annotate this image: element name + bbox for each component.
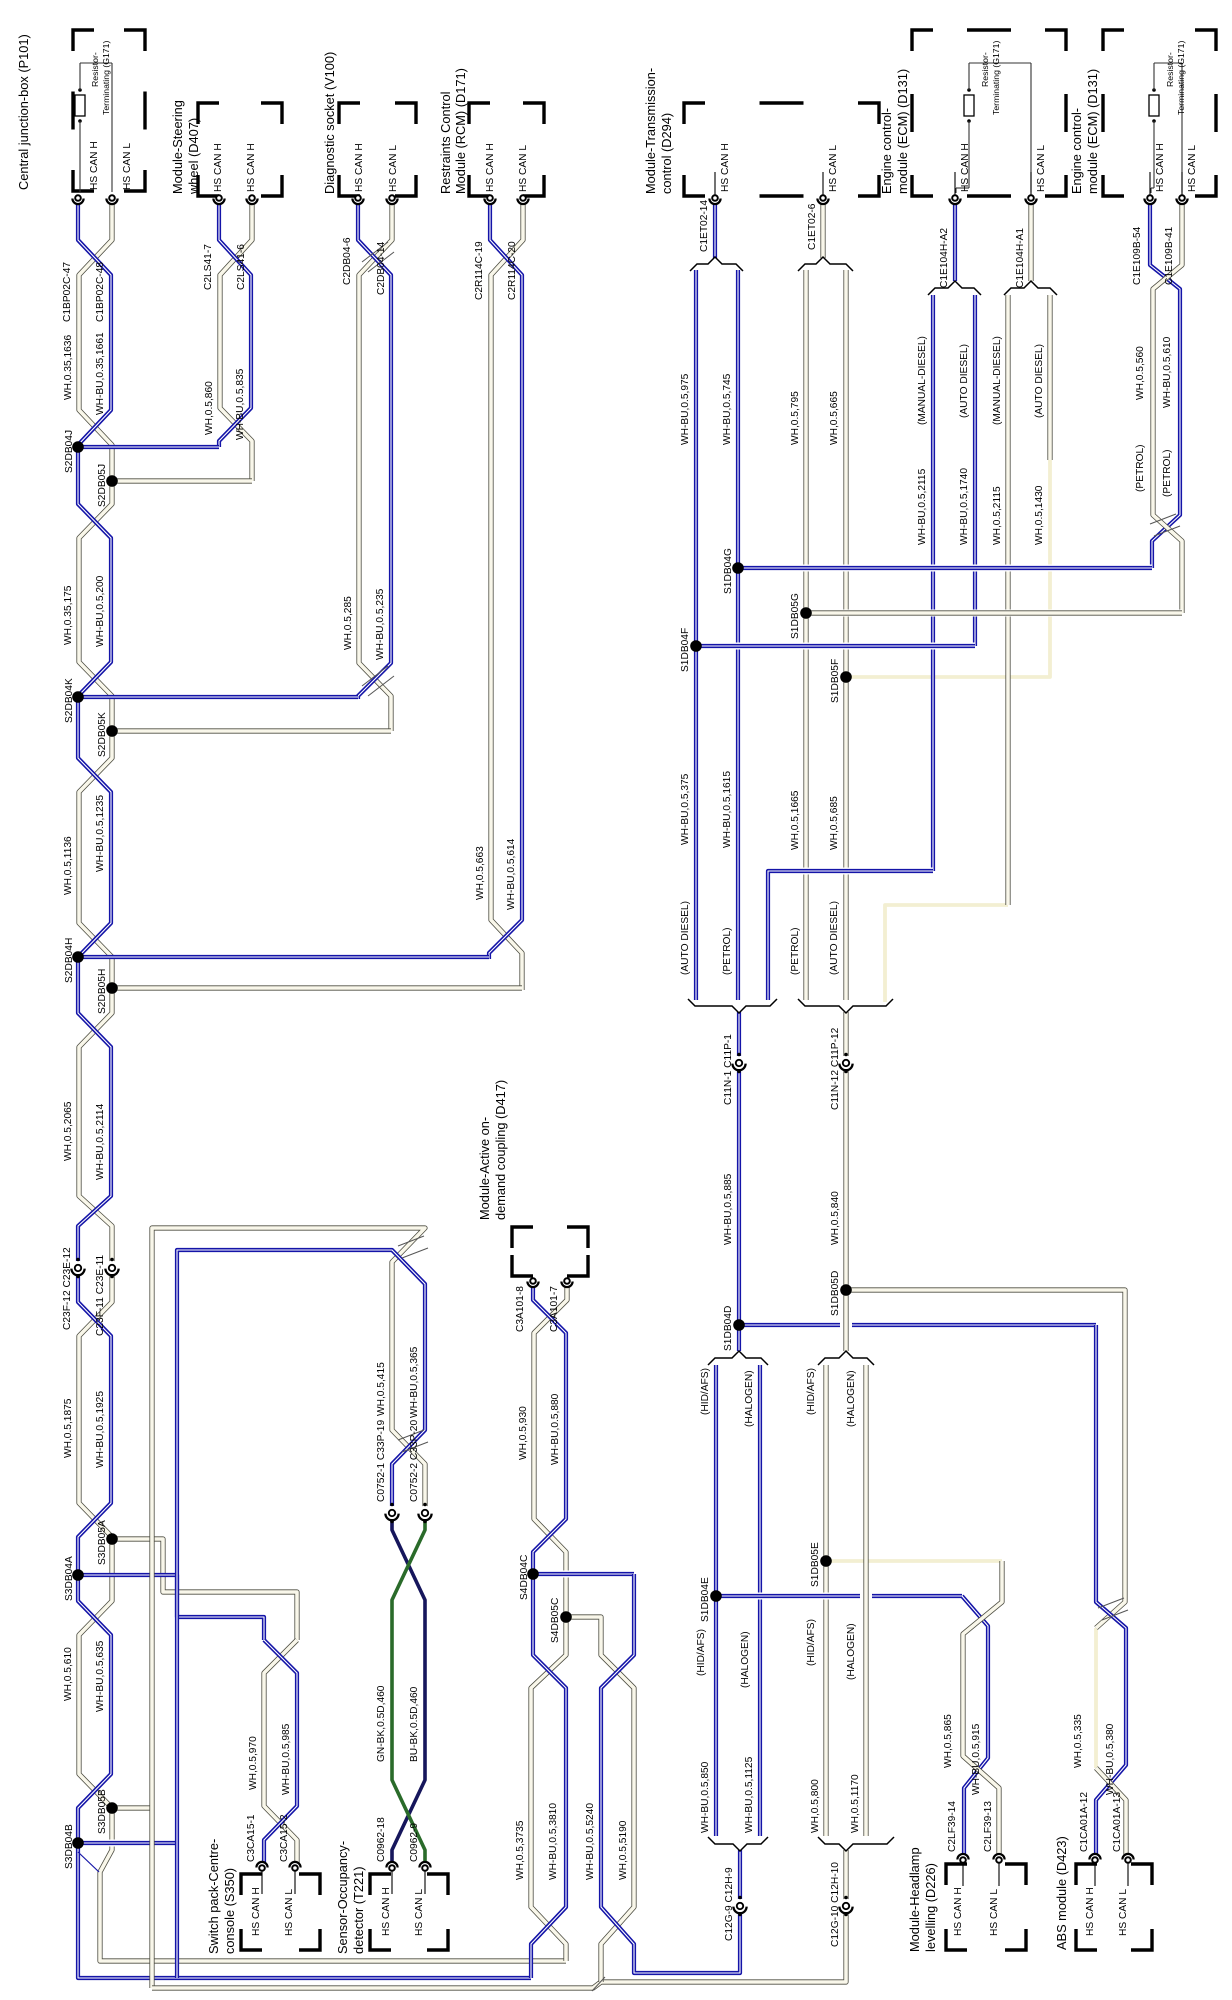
svg-text:Module (RCM) (D171): Module (RCM) (D171) (453, 68, 468, 194)
svg-text:WH-BU,0.5,5240: WH-BU,0.5,5240 (585, 1803, 596, 1880)
svg-text:(AUTO DIESEL): (AUTO DIESEL) (829, 901, 840, 975)
svg-text:C23F-12 C23E-12: C23F-12 C23E-12 (62, 1247, 73, 1330)
svg-text:WH-BU,0.5,2115: WH-BU,0.5,2115 (917, 468, 928, 545)
svg-text:HS CAN H: HS CAN H (213, 143, 224, 192)
svg-text:WH,0.5,1430: WH,0.5,1430 (1034, 485, 1045, 545)
svg-text:HS CAN L: HS CAN L (1036, 145, 1047, 192)
svg-text:C3A101-8: C3A101-8 (515, 1286, 526, 1332)
svg-text:S2DB05H: S2DB05H (97, 969, 108, 1014)
svg-text:WH,0.35,1636: WH,0.35,1636 (63, 335, 74, 400)
svg-text:C12G-10 C12H-10: C12G-10 C12H-10 (830, 1862, 841, 1947)
svg-text:WH,0.5,1136: WH,0.5,1136 (63, 836, 74, 895)
svg-text:WH,0.5,865: WH,0.5,865 (943, 1714, 954, 1768)
svg-text:C1E109B-54: C1E109B-54 (1132, 226, 1143, 285)
svg-text:C2LS41-7: C2LS41-7 (203, 244, 214, 290)
svg-text:WH,0.5,560: WH,0.5,560 (1135, 346, 1146, 400)
svg-text:WH-BU,0.5,1740: WH-BU,0.5,1740 (959, 468, 970, 545)
svg-text:S2DB05J: S2DB05J (97, 464, 108, 507)
svg-text:C1CA01A-13: C1CA01A-13 (1112, 1792, 1123, 1852)
svg-text:WH-BU,0.5,1615: WH-BU,0.5,1615 (722, 771, 733, 848)
svg-text:S4DB04C: S4DB04C (519, 1555, 530, 1600)
svg-text:C3CA15-2: C3CA15-2 (279, 1814, 290, 1862)
svg-text:S3DB05B: S3DB05B (97, 1789, 108, 1834)
svg-text:C0752-2 C33P-20: C0752-2 C33P-20 (409, 1420, 420, 1502)
svg-text:C12G-9 C12H-9: C12G-9 C12H-9 (724, 1867, 735, 1941)
svg-text:WH-BU,0.5,745: WH-BU,0.5,745 (722, 373, 733, 445)
svg-text:HS CAN H: HS CAN H (1085, 1887, 1096, 1936)
svg-text:WH-BU,0.5,635: WH-BU,0.5,635 (95, 1640, 106, 1712)
svg-text:WH,0.5,1665: WH,0.5,1665 (790, 790, 801, 850)
svg-text:C2DB04-14: C2DB04-14 (376, 241, 387, 295)
svg-text:WH,0.5,663: WH,0.5,663 (475, 846, 486, 900)
svg-text:C2LF39-13: C2LF39-13 (983, 1801, 994, 1852)
svg-text:WH,0.5,840: WH,0.5,840 (830, 1191, 841, 1245)
svg-text:(PETROL): (PETROL) (1135, 444, 1146, 492)
svg-text:WH-BU,0.5,3810: WH-BU,0.5,3810 (548, 1803, 559, 1880)
svg-text:S2DB05K: S2DB05K (97, 712, 108, 757)
svg-text:HS CAN H: HS CAN H (953, 1887, 964, 1936)
svg-text:HS CAN L: HS CAN L (284, 1889, 295, 1936)
svg-text:GN-BK,0.5D,460: GN-BK,0.5D,460 (376, 1685, 387, 1762)
svg-text:(HID/AFS): (HID/AFS) (806, 1619, 817, 1666)
svg-text:S3DB05A: S3DB05A (97, 1520, 108, 1565)
svg-text:HS CAN H: HS CAN H (89, 141, 100, 190)
svg-text:(HID/AFS): (HID/AFS) (696, 1629, 707, 1676)
svg-text:S1DB05G: S1DB05G (790, 593, 801, 639)
svg-text:WH-BU,0.5,880: WH-BU,0.5,880 (550, 1393, 561, 1465)
svg-text:Resistor-: Resistor- (1165, 52, 1175, 87)
svg-text:ABS module (D423): ABS module (D423) (1054, 1836, 1069, 1950)
svg-text:(HALOGEN): (HALOGEN) (846, 1370, 857, 1427)
svg-text:HS CAN H: HS CAN H (381, 1887, 392, 1936)
svg-text:console (S350): console (S350) (222, 1868, 237, 1954)
svg-text:(PETROL): (PETROL) (790, 927, 801, 975)
svg-text:C11N-1 C11P-1: C11N-1 C11P-1 (723, 1034, 734, 1105)
svg-text:(HALOGEN): (HALOGEN) (740, 1631, 751, 1688)
svg-text:HS CAN H: HS CAN H (251, 1887, 262, 1936)
svg-text:Module-Active on-: Module-Active on- (477, 1117, 492, 1220)
svg-text:C3CA15-1: C3CA15-1 (246, 1814, 257, 1862)
svg-text:WH,0.5,1170: WH,0.5,1170 (850, 1774, 861, 1833)
svg-text:S1DB04F: S1DB04F (680, 628, 691, 672)
svg-text:(HALOGEN): (HALOGEN) (744, 1370, 755, 1427)
svg-text:C1E109B-41: C1E109B-41 (1164, 226, 1175, 285)
svg-text:WH-BU,0.5,200: WH-BU,0.5,200 (95, 575, 106, 647)
svg-text:levelling (D226): levelling (D226) (923, 1863, 938, 1952)
svg-text:(AUTO DIESEL): (AUTO DIESEL) (680, 901, 691, 975)
svg-text:WH-BU,0.5,614: WH-BU,0.5,614 (506, 838, 517, 910)
svg-text:C2LS41-6: C2LS41-6 (236, 244, 247, 290)
svg-text:WH,0.5,665: WH,0.5,665 (829, 391, 840, 445)
svg-text:WH,0.5,685: WH,0.5,685 (829, 796, 840, 850)
svg-text:BU-BK,0.5D,460: BU-BK,0.5D,460 (409, 1686, 420, 1762)
svg-text:WH,0.5,335: WH,0.5,335 (1073, 1714, 1084, 1768)
svg-text:WH,0.5,285: WH,0.5,285 (343, 596, 354, 650)
svg-text:Terminating (G171): Terminating (G171) (101, 41, 111, 115)
svg-text:WH-BU,0.5,985: WH-BU,0.5,985 (281, 1723, 292, 1795)
svg-text:S1DB04E: S1DB04E (700, 1577, 711, 1622)
svg-text:module (ECM) (D131): module (ECM) (D131) (895, 69, 910, 194)
svg-text:Module-Steering: Module-Steering (170, 100, 185, 194)
svg-text:C3A101-7: C3A101-7 (549, 1286, 560, 1332)
svg-text:WH,0.5,5190: WH,0.5,5190 (618, 1820, 629, 1880)
svg-text:S1DB05F: S1DB05F (830, 659, 841, 703)
svg-text:C11N-12 C11P-12: C11N-12 C11P-12 (830, 1027, 841, 1110)
svg-text:Terminating (G171): Terminating (G171) (991, 41, 1001, 115)
svg-text:Central junction-box (P101): Central junction-box (P101) (16, 34, 31, 190)
svg-text:HS CAN L: HS CAN L (518, 145, 529, 192)
svg-text:WH,0.5,970: WH,0.5,970 (248, 1736, 259, 1790)
svg-text:C0752-1 C33P-19: C0752-1 C33P-19 (376, 1420, 387, 1502)
svg-text:WH,0.35,175: WH,0.35,175 (63, 585, 74, 645)
svg-text:C1E104H-A1: C1E104H-A1 (1015, 228, 1026, 288)
svg-text:HS CAN L: HS CAN L (388, 145, 399, 192)
svg-text:Restraints Control: Restraints Control (438, 92, 453, 194)
svg-text:S1DB05E: S1DB05E (810, 1542, 821, 1587)
svg-text:(HID/AFS): (HID/AFS) (806, 1368, 817, 1415)
svg-text:HS CAN L: HS CAN L (989, 1889, 1000, 1936)
svg-text:C0962-9: C0962-9 (409, 1823, 420, 1862)
svg-text:module (ECM) (D131): module (ECM) (D131) (1085, 69, 1100, 194)
svg-text:WH-BU,0.5,850: WH-BU,0.5,850 (700, 1761, 711, 1833)
svg-text:HS CAN L: HS CAN L (122, 143, 133, 190)
svg-text:Module-Transmission-: Module-Transmission- (643, 68, 658, 194)
svg-text:WH,0.5,930: WH,0.5,930 (518, 1406, 529, 1460)
svg-text:Diagnostic socket (V100): Diagnostic socket (V100) (322, 52, 337, 194)
svg-text:WH-BU,0.5,610: WH-BU,0.5,610 (1162, 336, 1173, 408)
svg-text:WH,0.5,3735: WH,0.5,3735 (515, 1820, 526, 1880)
svg-text:HS CAN L: HS CAN L (1187, 145, 1198, 192)
svg-text:S2DB04J: S2DB04J (64, 430, 75, 473)
svg-text:WH-BU,0.5,1235: WH-BU,0.5,1235 (95, 795, 106, 872)
svg-text:(HID/AFS): (HID/AFS) (700, 1368, 711, 1415)
svg-text:Switch pack-Centre-: Switch pack-Centre- (206, 1839, 221, 1954)
svg-text:S1DB04G: S1DB04G (723, 548, 734, 594)
svg-text:HS CAN H: HS CAN H (1155, 143, 1166, 192)
svg-text:detector (T221): detector (T221) (351, 1867, 366, 1955)
svg-text:WH,0.5,415: WH,0.5,415 (376, 1362, 387, 1416)
svg-text:Engine control-: Engine control- (1069, 108, 1084, 194)
svg-text:HS CAN H: HS CAN H (485, 143, 496, 192)
svg-text:C2R114C-19: C2R114C-19 (474, 241, 485, 300)
svg-text:WH-BU,0.5,975: WH-BU,0.5,975 (680, 373, 691, 445)
svg-text:Sensor-Occupancy-: Sensor-Occupancy- (335, 1841, 350, 1954)
svg-text:WH,0.5,2065: WH,0.5,2065 (63, 1101, 74, 1161)
svg-text:S4DB05C: S4DB05C (550, 1598, 561, 1643)
svg-text:S1DB05D: S1DB05D (830, 1271, 841, 1316)
svg-text:HS CAN H: HS CAN H (960, 143, 971, 192)
svg-text:S3DB04A: S3DB04A (64, 1556, 75, 1601)
svg-text:WH-BU,0.5,835: WH-BU,0.5,835 (235, 368, 246, 440)
svg-text:Resistor-: Resistor- (90, 52, 100, 87)
svg-text:C23F-11 C23E-11: C23F-11 C23E-11 (95, 1255, 106, 1336)
svg-text:C1BP02C-48: C1BP02C-48 (95, 262, 106, 322)
svg-text:S1DB04D: S1DB04D (723, 1306, 734, 1351)
svg-text:C1BP02C-47: C1BP02C-47 (62, 262, 73, 322)
svg-text:WH-BU,0.5,885: WH-BU,0.5,885 (723, 1173, 734, 1245)
svg-text:WH,0.5,795: WH,0.5,795 (790, 391, 801, 445)
svg-text:(PETROL): (PETROL) (722, 927, 733, 975)
svg-text:C2DB04-6: C2DB04-6 (342, 237, 353, 285)
svg-text:(MANUAL-DIESEL): (MANUAL-DIESEL) (917, 336, 928, 425)
svg-text:C1CA01A-12: C1CA01A-12 (1079, 1792, 1090, 1852)
svg-text:wheel (D407): wheel (D407) (186, 118, 201, 195)
svg-text:WH-BU,0.5,1125: WH-BU,0.5,1125 (744, 1756, 755, 1833)
svg-text:demand coupling (D417): demand coupling (D417) (493, 1080, 508, 1220)
svg-text:(MANUAL-DIESEL): (MANUAL-DIESEL) (992, 336, 1003, 425)
svg-text:HS CAN H: HS CAN H (720, 143, 731, 192)
svg-text:WH-BU,0.5,380: WH-BU,0.5,380 (1105, 1723, 1116, 1795)
svg-text:HS CAN L: HS CAN L (828, 145, 839, 192)
svg-text:WH,0.5,860: WH,0.5,860 (204, 381, 215, 435)
svg-text:WH-BU,0.5,375: WH-BU,0.5,375 (680, 773, 691, 845)
svg-text:WH-BU,0.5,2114: WH-BU,0.5,2114 (95, 1103, 106, 1180)
svg-text:(PETROL): (PETROL) (1162, 449, 1173, 497)
svg-text:WH-BU,0.5,235: WH-BU,0.5,235 (375, 588, 386, 660)
svg-text:HS CAN H: HS CAN H (246, 143, 257, 192)
svg-text:Module-Headlamp: Module-Headlamp (907, 1847, 922, 1952)
svg-text:(HALOGEN): (HALOGEN) (846, 1623, 857, 1680)
svg-text:Terminating (G171): Terminating (G171) (1176, 41, 1186, 115)
svg-text:S2DB04H: S2DB04H (64, 938, 75, 983)
svg-text:WH-BU,0.5,915: WH-BU,0.5,915 (971, 1723, 982, 1795)
svg-text:control (D294): control (D294) (659, 113, 674, 194)
svg-text:C2R114C-20: C2R114C-20 (507, 241, 518, 300)
svg-text:HS CAN L: HS CAN L (414, 1889, 425, 1936)
svg-text:S3DB04B: S3DB04B (64, 1824, 75, 1869)
svg-text:WH-BU,0.35,1661: WH-BU,0.35,1661 (95, 332, 106, 415)
svg-text:C1E104H-A2: C1E104H-A2 (939, 228, 950, 288)
svg-text:(AUTO DIESEL): (AUTO DIESEL) (959, 344, 970, 418)
svg-text:(AUTO DIESEL): (AUTO DIESEL) (1034, 344, 1045, 418)
svg-text:WH,0.5,2115: WH,0.5,2115 (992, 486, 1003, 545)
svg-text:WH-BU,0.5,1925: WH-BU,0.5,1925 (95, 1391, 106, 1468)
svg-text:WH-BU,0.5,365: WH-BU,0.5,365 (409, 1346, 420, 1418)
svg-text:HS CAN H: HS CAN H (354, 143, 365, 192)
svg-text:WH,0.5,1875: WH,0.5,1875 (63, 1398, 74, 1458)
svg-text:C2LF39-14: C2LF39-14 (947, 1801, 958, 1852)
svg-text:Resistor-: Resistor- (980, 52, 990, 87)
svg-text:C1ET02-14: C1ET02-14 (699, 200, 710, 252)
svg-text:Engine control-: Engine control- (879, 108, 894, 194)
svg-text:HS CAN L: HS CAN L (1118, 1889, 1129, 1936)
svg-text:WH,0.5,610: WH,0.5,610 (63, 1647, 74, 1701)
svg-text:S2DB04K: S2DB04K (64, 678, 75, 723)
svg-text:C0962-18: C0962-18 (376, 1817, 387, 1862)
svg-text:WH,0.5,800: WH,0.5,800 (810, 1779, 821, 1833)
svg-text:C1ET02-6: C1ET02-6 (807, 203, 818, 250)
